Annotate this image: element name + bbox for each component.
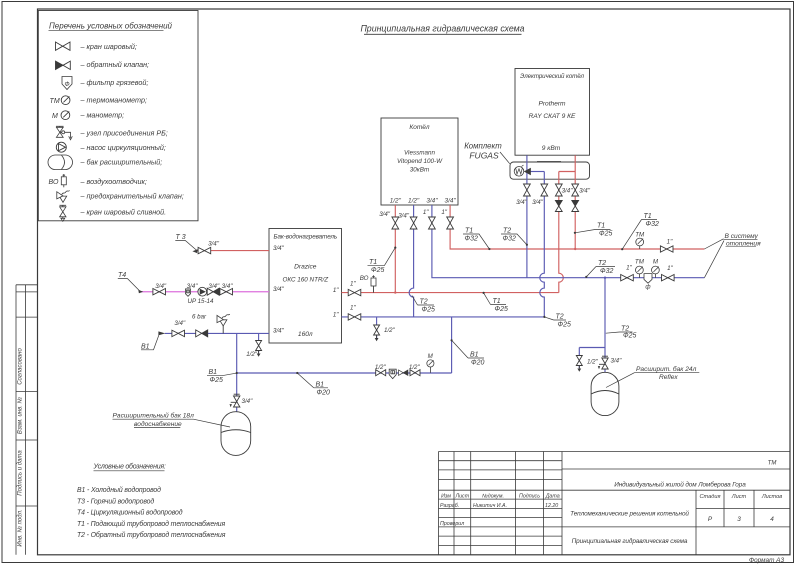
svg-text:– кран шаровый сливной.: – кран шаровый сливной. [80,208,167,217]
pump UP 15-14 [198,287,207,296]
svg-text:ТМ: ТМ [768,461,777,467]
wire: T4 magenta line [141,291,269,293]
svg-text:3/4": 3/4" [516,199,528,206]
18L drain cock 3/4 [230,394,240,407]
reflex drain small valve 1/2 [576,356,582,372]
svg-text:М: М [653,259,659,266]
safety valve 6 bar [222,326,224,333]
node to heating system [704,239,724,278]
filter on T2 f32 [644,274,652,284]
svg-text:В1 - Холодный водопровод: В1 - Холодный водопровод [77,486,161,494]
B1 f20 valve 1/2 second [410,370,420,376]
svg-text:12.20: 12.20 [545,503,558,509]
svg-text:30кВт: 30кВт [410,167,429,174]
valve B1 3/4 [172,330,185,336]
svg-text:Т2: Т2 [503,228,511,235]
wire: drain stub under T2 f25 [376,317,378,340]
svg-text:3/4": 3/4" [187,283,199,290]
svg-text:– термоманометр;: – термоманометр; [80,96,147,105]
TM gauge on T1 f32 [639,246,641,249]
svg-text:1/2": 1/2" [409,364,421,371]
svg-text:4: 4 [770,516,774,523]
valve T2 f32 1" left [621,275,634,281]
svg-text:Разраб.: Разраб. [440,503,459,509]
svg-text:Т1: Т1 [493,298,501,305]
svg-text:1": 1" [333,311,339,318]
svg-text:Согласовано: Согласовано [17,348,23,385]
svg-text:– узел присоединения РБ;: – узел присоединения РБ; [80,129,168,138]
svg-text:Принципиальная гидравлическая: Принципиальная гидравлическая схема [572,537,688,545]
svg-text:1": 1" [350,281,356,288]
TM gauge on T2 f32 [638,274,640,278]
gas boiler valve 3 [429,217,436,229]
svg-text:Т2 - Обратный трубопровод тепл: Т2 - Обратный трубопровод теплоснабжения [77,531,226,539]
svg-text:– фильтр грязевой;: – фильтр грязевой; [80,78,149,87]
svg-text:3/4": 3/4" [273,328,285,335]
svg-text:Ф25: Ф25 [495,306,508,313]
svg-text:№докум.: №докум. [482,494,504,500]
svg-text:3/4": 3/4" [242,398,254,405]
reflex drain cock 3/4 [598,356,608,369]
electric boiler valve C [555,184,562,196]
svg-text:Т4 - Циркуляционный водопровод: Т4 - Циркуляционный водопровод [77,509,183,517]
FUGAS pump [514,165,524,176]
FUGAS check valve [525,168,531,174]
svg-text:Т2: Т2 [598,260,606,267]
wire: T1 f25 red line tank to riser [342,292,559,294]
svg-text:6 bar: 6 bar [192,314,207,321]
legend: circulation pump [56,142,66,152]
svg-text:3/4": 3/4" [208,283,220,290]
svg-text:Р: Р [708,516,713,523]
svg-text:ТМ: ТМ [635,232,645,239]
svg-text:1/2": 1/2" [384,327,396,334]
svg-text:1": 1" [667,265,673,272]
manometer on B1 f20 [429,367,431,373]
gas boiler valve 4 [447,217,454,229]
check valve B1 [196,330,208,337]
gas boiler box [381,118,458,205]
svg-text:FUGAS: FUGAS [469,151,499,161]
svg-text:Protherm: Protherm [538,101,566,108]
M gauge on T2 f32 [654,274,656,278]
wire: electric boiler pipe D red [574,155,576,249]
electric boiler box [515,69,590,156]
svg-text:Условные обозначения:: Условные обозначения: [93,463,166,471]
wire: B1 f25 riser down to exp tank [236,333,238,411]
svg-text:ТМ: ТМ [50,98,60,105]
svg-text:3/4": 3/4" [273,286,285,293]
svg-text:Т 3: Т 3 [176,234,186,241]
svg-text:Изм: Изм [441,494,451,500]
legend: expansion tank [48,155,73,170]
svg-text:– бак расширительный;: – бак расширительный; [80,158,163,167]
electric boiler valve B [541,184,548,196]
svg-text:1/2": 1/2" [587,359,599,366]
svg-text:Ф25: Ф25 [599,231,612,238]
svg-text:3/4": 3/4" [174,320,186,327]
svg-text:3/4": 3/4" [379,211,391,218]
check valve D [572,201,579,212]
svg-text:1": 1" [333,287,339,294]
title block grid [439,452,791,555]
svg-text:1/2": 1/2" [408,198,420,205]
legend box [38,11,198,221]
svg-text:1/2": 1/2" [246,351,258,358]
svg-text:Бак-водонагреватель: Бак-водонагреватель [274,233,338,241]
svg-text:1": 1" [626,265,632,272]
B1 f20 filter [389,369,396,379]
svg-text:RAY СКАТ 9 КЕ: RAY СКАТ 9 КЕ [529,113,576,120]
svg-text:Т2: Т2 [621,326,629,333]
air vent on T1 f25 [373,286,375,293]
leader to FUGAS box [500,152,510,164]
svg-text:3/4": 3/4" [222,283,234,290]
svg-text:Т1: Т1 [465,228,473,235]
svg-text:– манометр;: – манометр; [80,111,125,120]
svg-text:Индивидуальный жилой дом Ломбе: Индивидуальный жилой дом Ломберова Гора [614,480,746,488]
svg-text:Viessmann: Viessmann [404,150,436,157]
wire: B1 blue inlet line [165,332,269,334]
wire: FUGAS red branch [559,171,575,173]
svg-text:Расширительный бак 18л: Расширительный бак 18л [113,411,195,419]
svg-text:Ф32: Ф32 [646,221,659,228]
left side stamp [16,285,38,555]
svg-text:Ф32: Ф32 [600,268,613,275]
svg-text:Лист: Лист [731,494,747,500]
svg-text:UP 15-14: UP 15-14 [188,298,214,305]
wire: T2 f25 blue line [342,316,545,318]
svg-text:Перечень условных обозначений: Перечень условных обозначений [49,22,173,31]
svg-text:Т1: Т1 [644,213,652,220]
svg-text:ВО: ВО [49,179,60,186]
wire: drain stub under B1 line [258,333,260,352]
B1 f20 valve 1/2 [376,370,386,376]
water supply expansion tank 18L [221,412,251,456]
reflex expansion tank [591,372,619,415]
strainer T4 [185,289,190,296]
electric boiler valve D [572,184,579,196]
svg-text:Проверил: Проверил [440,521,464,527]
svg-text:Drazice: Drazice [294,264,317,271]
svg-text:3: 3 [737,516,741,523]
svg-text:Т2: Т2 [556,314,564,321]
svg-text:Ф: Ф [64,81,69,88]
check valve C [555,201,562,212]
svg-text:3/4": 3/4" [562,188,574,195]
svg-text:Формат А3: Формат А3 [749,557,784,564]
svg-text:Лист: Лист [454,494,469,500]
svg-text:М: М [52,113,58,120]
wire: electric boiler pipe C red with hop [559,172,564,293]
wire: B1 f20 make-up line [237,317,452,373]
svg-text:1": 1" [423,209,429,216]
svg-text:Т4: Т4 [118,272,126,279]
svg-text:Vitopend 100-W: Vitopend 100-W [397,158,443,165]
wire: gas boiler pipe1 red riser [394,205,396,293]
svg-text:Никитич И.А.: Никитич И.А. [473,503,507,509]
svg-text:Ф25: Ф25 [558,322,571,329]
svg-text:водоснабжение: водоснабжение [134,420,182,428]
svg-text:160л: 160л [298,331,313,338]
svg-text:М: М [428,353,434,360]
svg-text:– кран шаровый;: – кран шаровый; [80,42,137,51]
svg-text:1": 1" [350,305,356,312]
legend: check valve symbol [56,61,71,69]
svg-text:ВО: ВО [360,275,369,282]
svg-text:3/4": 3/4" [445,198,457,205]
svg-text:ОКС 160 NTR/Z: ОКС 160 NTR/Z [282,277,329,284]
svg-text:Ф25: Ф25 [210,377,223,384]
gas boiler valve 1 [392,217,399,229]
svg-text:1/2": 1/2" [375,364,387,371]
svg-text:Инв. № подл.: Инв. № подл. [16,509,23,546]
water heater tank box [269,229,342,344]
legend: drain ball valve [60,205,67,221]
legend: RB connection unit [56,126,72,140]
svg-text:1": 1" [667,239,673,246]
svg-text:Принципиальная гидравлическая: Принципиальная гидравлическая схема [360,24,524,34]
valve T3 3/4 [198,247,211,253]
valve T4 3/4 [153,289,166,295]
svg-text:– предохранительный клапан;: – предохранительный клапан; [80,192,184,201]
svg-text:Взам. инв. №: Взам. инв. № [16,396,23,434]
svg-text:Электрический котёл: Электрический котёл [520,73,585,80]
svg-text:Т2: Т2 [420,299,428,306]
svg-text:Ф32: Ф32 [465,236,478,243]
svg-text:Расширит. бак 24л: Расширит. бак 24л [636,365,697,373]
valve T1 f32 1" [660,246,673,252]
svg-text:ф: ф [645,284,650,291]
svg-text:Котёл: Котёл [409,124,429,131]
svg-text:Тепломеханические решения коте: Тепломеханические решения котельной [570,510,689,518]
svg-text:Ф20: Ф20 [471,360,484,367]
svg-text:Подпись и дата: Подпись и дата [17,450,23,496]
svg-text:Комплект: Комплект [464,142,502,151]
svg-text:В1: В1 [470,352,479,359]
svg-text:ТМ: ТМ [635,259,645,266]
svg-text:3/4": 3/4" [426,198,438,205]
svg-text:Дата: Дата [545,494,560,500]
wire: T3 red line [198,250,270,252]
legend: safety valve [57,191,70,203]
legend: ball valve symbol [56,42,71,50]
svg-text:– обратный клапан;: – обратный клапан; [80,60,150,69]
svg-text:9 кВт: 9 кВт [542,145,561,152]
gas boiler valve 2 [410,217,417,229]
valve T2 f32 1" right [662,275,675,281]
wire: gas boiler pipe3 + T2 f32 blue main [432,205,705,278]
svg-text:– воздухоотводчик;: – воздухоотводчик; [80,177,147,186]
svg-text:В1: В1 [209,369,218,376]
wire: reflex tank branch [579,278,605,373]
FUGAS kit box [510,162,590,179]
check valve T4 [207,288,219,295]
drain valve on stub under B1 [256,341,262,357]
wire: electric boiler pipe A blue [526,155,528,278]
tank T1 coil valve 1" [348,289,361,295]
B1 f20 check valve [399,370,408,375]
tank T2 coil valve 1" [348,314,361,320]
svg-text:Ф25: Ф25 [623,333,636,340]
wire: electric boiler pipe B blue with two hops [540,172,545,317]
drain valve on stub under T2 f25 [374,325,380,341]
svg-text:3/4": 3/4" [155,283,167,290]
svg-text:Ф25: Ф25 [371,267,384,274]
svg-text:В систему: В систему [725,233,759,240]
svg-text:1/2": 1/2" [390,198,402,205]
svg-text:1": 1" [441,209,447,216]
svg-text:3/4": 3/4" [273,245,285,252]
valve T4 second 3/4 [220,289,233,295]
svg-text:Т1: Т1 [597,223,605,230]
svg-text:Стадия: Стадия [700,494,721,500]
svg-text:3/4": 3/4" [611,358,623,365]
wire: gas boiler pipe4 + T1 f32 red main [450,205,704,249]
svg-text:– насос циркуляционный;: – насос циркуляционный; [80,143,166,152]
svg-text:3/4": 3/4" [579,188,591,195]
wire: FUGAS blue branch [531,171,545,173]
svg-text:Листов: Листов [761,494,782,500]
svg-text:Ф25: Ф25 [422,307,435,314]
svg-text:Ф20: Ф20 [317,390,330,397]
svg-text:3/4": 3/4" [532,199,544,206]
legend: dirt filter symbol [62,77,72,90]
junction dots [394,291,396,293]
svg-text:Т1 - Подающий трубопровод тепл: Т1 - Подающий трубопровод теплоснабжения [77,520,226,528]
svg-text:Т3 - Горячий водопровод: Т3 - Горячий водопровод [77,497,154,505]
svg-text:Ф32: Ф32 [503,236,516,243]
wire: gas boiler pipe2 blue with hop [409,205,414,317]
svg-text:Т1: Т1 [369,259,377,266]
svg-text:3/4": 3/4" [208,241,220,248]
svg-text:Подпись: Подпись [519,494,540,500]
svg-text:Reflex: Reflex [659,374,678,381]
svg-text:3/4": 3/4" [398,213,410,220]
electric boiler valve A [524,184,531,196]
